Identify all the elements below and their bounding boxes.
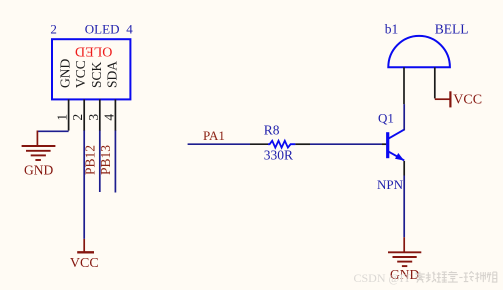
svg-text:NPN: NPN [377,177,404,192]
svg-text:2: 2 [50,22,57,37]
svg-text:PA1: PA1 [203,128,225,143]
svg-text:SCK: SCK [89,61,104,88]
svg-text:VCC: VCC [70,256,99,271]
svg-text:PB13: PB13 [98,145,113,175]
svg-text:2: 2 [70,114,85,121]
svg-text:OLED: OLED [85,22,120,37]
svg-text:OLED: OLED [75,44,112,59]
svg-text:CSDN @IT: CSDN @IT [354,271,412,285]
svg-text:GND: GND [58,59,73,88]
svg-text:PB12: PB12 [83,145,98,175]
svg-text:b1: b1 [385,21,399,36]
svg-text:1: 1 [55,114,70,121]
svg-text:330R: 330R [264,148,293,163]
svg-text:3: 3 [86,114,101,121]
svg-text:GND: GND [24,163,53,178]
svg-text:BELL: BELL [435,21,469,36]
svg-text:4: 4 [126,22,133,37]
svg-text:VCC: VCC [73,60,88,88]
svg-text:4: 4 [101,114,116,121]
svg-text:VCC: VCC [453,93,482,108]
svg-text:R8: R8 [264,122,280,137]
svg-text:SDA: SDA [104,61,119,88]
svg-text:Q1: Q1 [378,110,394,125]
